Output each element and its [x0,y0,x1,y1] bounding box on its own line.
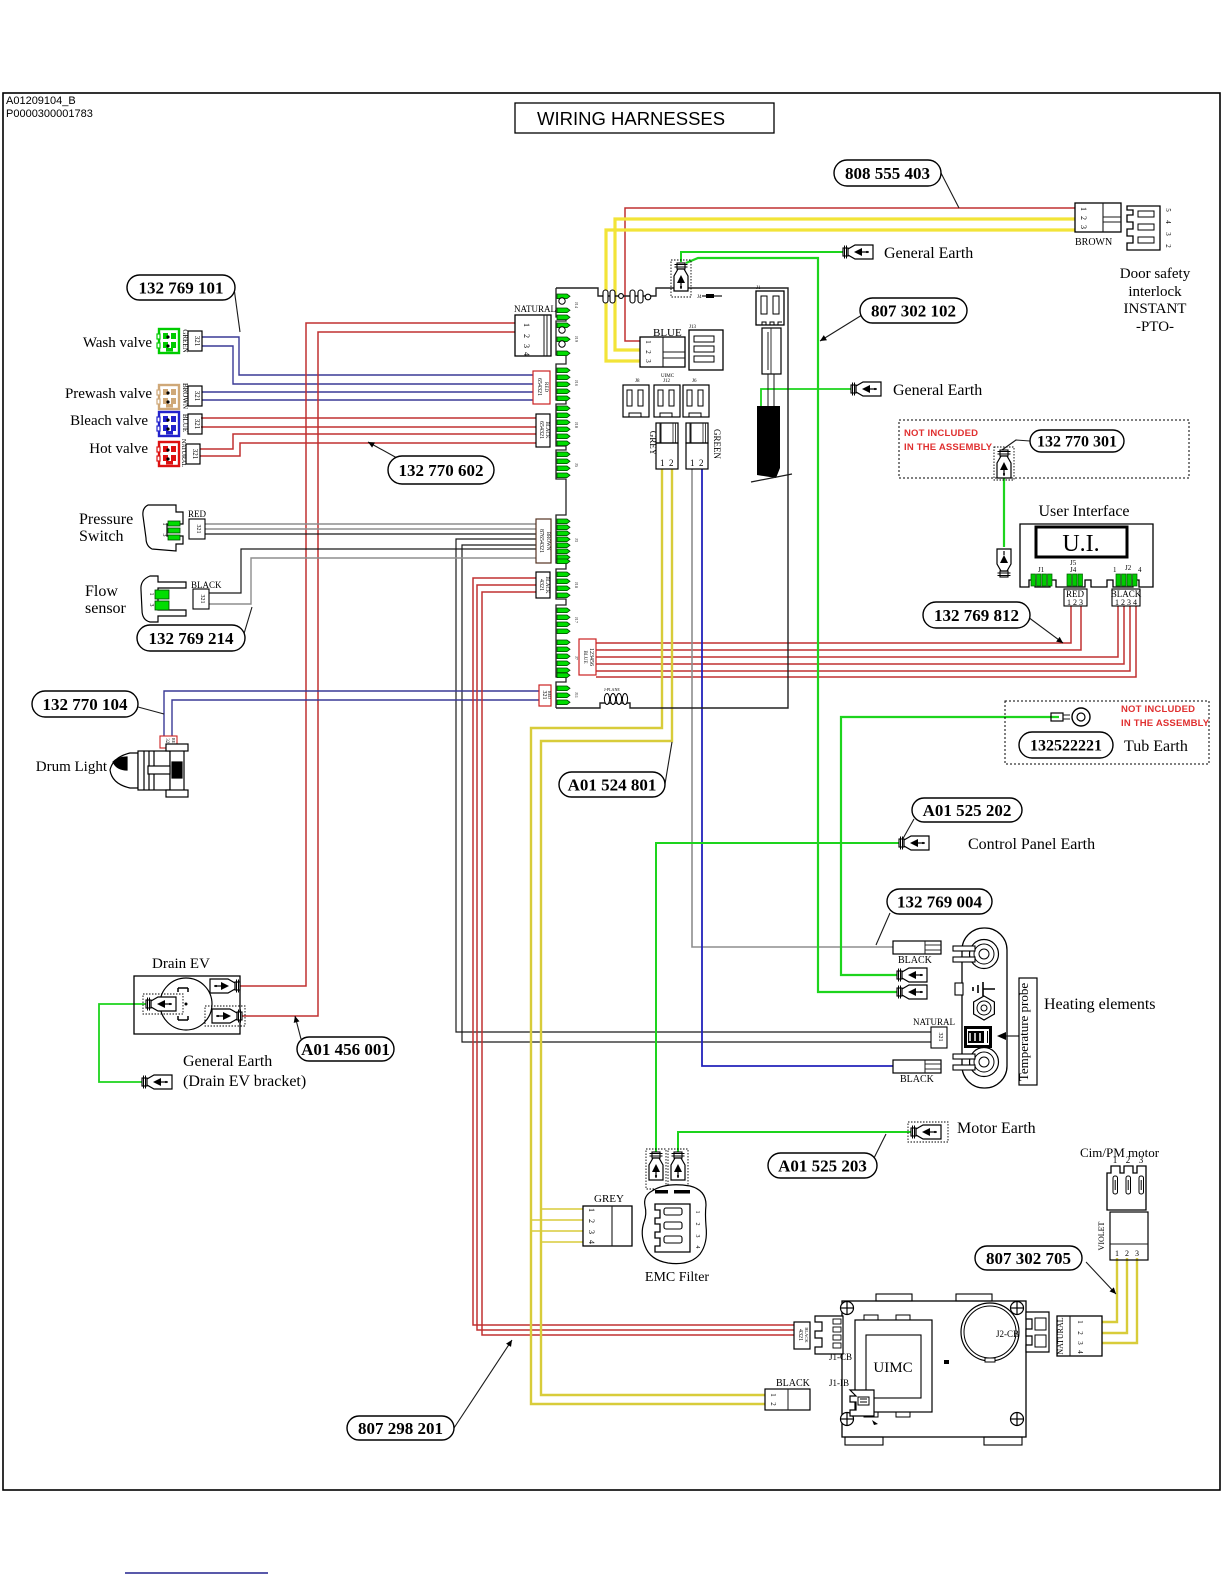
svg-text:Control Panel Earth: Control Panel Earth [968,836,1095,853]
svg-text:321: 321 [541,691,547,700]
svg-text:J10: J10 [574,422,579,429]
svg-text:BLACK: BLACK [900,1074,935,1085]
svg-text:J4: J4 [1070,566,1077,574]
svg-text:1 2 3: 1 2 3 [1067,598,1083,607]
svg-text:BLACK: BLACK [776,1378,811,1389]
svg-text:3: 3 [1164,232,1172,236]
svg-text:A01 525 202: A01 525 202 [923,801,1012,820]
svg-text:4: 4 [1164,220,1172,224]
svg-text:2: 2 [522,334,531,338]
svg-text:U.I.: U.I. [1062,531,1099,557]
svg-text:132 769 812: 132 769 812 [934,606,1019,625]
svg-text:RED: RED [188,509,207,519]
svg-text:UIMC: UIMC [873,1360,912,1376]
svg-text:GREEN: GREEN [712,429,722,459]
svg-text:3: 3 [644,359,652,363]
svg-text:321: 321 [193,391,201,402]
svg-text:J6: J6 [692,379,697,384]
svg-text:807 302 102: 807 302 102 [871,301,956,320]
svg-text:EMC Filter: EMC Filter [645,1270,710,1285]
svg-text:123456: 123456 [588,648,594,666]
svg-text:sensor: sensor [85,600,127,617]
svg-text:J12: J12 [663,379,670,384]
svg-text:J1-IB: J1-IB [829,1378,849,1388]
svg-text:J2-CB: J2-CB [996,1329,1019,1339]
svg-text:321: 321 [193,419,201,430]
svg-text:2: 2 [1126,1155,1131,1165]
svg-text:132 770 104: 132 770 104 [43,695,129,714]
svg-text:Temperature probe: Temperature probe [1016,983,1031,1082]
svg-text:RED: RED [547,691,552,699]
svg-text:Tub Earth: Tub Earth [1124,738,1188,755]
svg-text:BLUE: BLUE [582,650,587,663]
svg-text:J14: J14 [574,302,579,309]
svg-text:Wash valve: Wash valve [83,335,153,351]
svg-text:Door safety: Door safety [1120,266,1191,282]
svg-text:2: 2 [769,1402,777,1406]
svg-text:1: 1 [1113,1155,1118,1165]
svg-text:807 302 705: 807 302 705 [986,1249,1071,1268]
svg-text:132 769 101: 132 769 101 [139,278,224,297]
svg-text:3: 3 [587,1230,596,1234]
svg-text:J1: J1 [1038,566,1045,574]
svg-text:(Drain EV bracket): (Drain EV bracket) [183,1073,306,1090]
svg-text:1: 1 [161,523,167,526]
svg-text:RED: RED [543,382,548,392]
svg-text:Hot valve: Hot valve [89,441,148,457]
svg-text:2: 2 [699,458,704,468]
svg-text:1: 1 [148,593,154,596]
svg-text:interlock: interlock [1128,284,1182,300]
svg-text:General Earth: General Earth [893,382,982,399]
svg-text:4: 4 [1076,1350,1084,1354]
svg-text:J1-CB: J1-CB [829,1352,852,1362]
svg-text:J2: J2 [1125,564,1132,572]
svg-text:-PTO-: -PTO- [1136,319,1174,335]
svg-text:BROWN: BROWN [1075,237,1112,248]
svg-text:2: 2 [587,1219,596,1223]
svg-text:808 555 403: 808 555 403 [845,164,930,183]
svg-text:5: 5 [1164,208,1172,212]
svg-text:J19: J19 [574,336,579,343]
svg-text:A01209104_B: A01209104_B [6,95,76,107]
svg-text:1: 1 [694,1211,700,1214]
svg-text:Cim/PM motor: Cim/PM motor [1080,1145,1160,1160]
svg-text:J1: J1 [756,286,761,291]
svg-text:NATURAL: NATURAL [1056,1317,1065,1354]
svg-text:4321: 4321 [538,579,544,591]
svg-text:1: 1 [522,323,531,327]
svg-text:3: 3 [694,1235,700,1238]
svg-text:A01 525 203: A01 525 203 [778,1156,867,1175]
svg-text:1: 1 [769,1393,777,1397]
svg-text:2: 2 [1125,1249,1129,1258]
svg-text:1: 1 [1113,566,1117,574]
svg-text:4: 4 [1138,566,1142,574]
svg-text:1: 1 [644,340,652,344]
svg-text:654321: 654321 [536,378,542,396]
svg-text:NOT INCLUDED: NOT INCLUDED [904,428,978,439]
svg-text:Prewash valve: Prewash valve [65,386,152,402]
svg-text:INSTANT: INSTANT [1124,301,1187,317]
svg-text:P0000300001783: P0000300001783 [6,108,93,120]
svg-text:4: 4 [587,1240,596,1244]
svg-text:1: 1 [1115,1249,1119,1258]
svg-text:3: 3 [1076,1341,1084,1345]
svg-text:87654321: 87654321 [538,529,544,553]
svg-text:Motor Earth: Motor Earth [957,1120,1036,1137]
svg-text:132522221: 132522221 [1030,738,1102,755]
svg-text:2: 2 [1076,1331,1084,1335]
svg-text:3: 3 [1135,1249,1139,1258]
svg-text:2: 2 [1164,244,1172,248]
svg-text:3: 3 [522,344,531,348]
svg-text:NOT INCLUDED: NOT INCLUDED [1121,704,1195,715]
svg-text:321: 321 [937,1033,943,1042]
svg-text:J16: J16 [574,380,579,387]
svg-text:132 769 214: 132 769 214 [149,629,235,648]
svg-text:3: 3 [1079,225,1088,229]
svg-text:2: 2 [1079,216,1088,220]
svg-text:321: 321 [191,449,199,460]
svg-text:321: 321 [193,336,201,347]
svg-text:Switch: Switch [79,528,123,545]
svg-text:1: 1 [587,1208,596,1212]
svg-text:J4: J4 [697,295,702,300]
svg-text:General Earth: General Earth [183,1053,272,1070]
svg-text:BLACK: BLACK [544,422,549,439]
svg-text:BLACK: BLACK [898,955,933,966]
svg-text:4: 4 [694,1246,700,1249]
svg-text:654321: 654321 [538,421,544,439]
svg-text:3: 3 [161,534,167,537]
svg-text:1: 1 [660,458,665,468]
svg-text:132 769 004: 132 769 004 [897,892,983,911]
svg-text:321: 321 [199,595,205,604]
svg-text:GREY: GREY [594,1193,624,1205]
svg-text:J13: J13 [689,325,696,330]
svg-text:J17: J17 [574,617,579,624]
svg-text:Heating elements: Heating elements [1044,996,1156,1013]
svg-text:J8: J8 [635,379,640,384]
svg-text:1: 1 [1076,1320,1084,1324]
svg-text:1: 1 [690,458,695,468]
svg-text:4321: 4321 [797,1329,803,1341]
svg-text:Flow: Flow [85,583,118,600]
svg-text:3: 3 [1139,1155,1144,1165]
svg-text:J-PLANE: J-PLANE [604,687,620,692]
svg-text:User Interface: User Interface [1038,503,1129,520]
svg-text:321: 321 [195,525,201,534]
svg-text:A01 524 801: A01 524 801 [568,775,657,794]
svg-text:Drum Light: Drum Light [36,759,108,775]
svg-text:132 770 602: 132 770 602 [399,461,484,480]
svg-text:2: 2 [694,1223,700,1226]
svg-text:132 770 301: 132 770 301 [1037,434,1117,451]
svg-text:NATURAL: NATURAL [913,1017,955,1027]
svg-text:BROWN: BROWN [545,532,550,551]
svg-text:BLACK: BLACK [544,577,549,594]
svg-text:Pressure: Pressure [79,511,133,528]
svg-text:807 298 201: 807 298 201 [358,1419,443,1438]
svg-text:J11: J11 [574,692,579,698]
svg-text:WIRING HARNESSES: WIRING HARNESSES [537,108,725,129]
svg-text:IN THE ASSEMBLY: IN THE ASSEMBLY [904,442,993,453]
svg-text:Drain EV: Drain EV [152,956,210,972]
svg-text:NATURAL: NATURAL [180,439,186,467]
svg-text:BLACK: BLACK [804,1327,809,1343]
svg-text:A01 456 001: A01 456 001 [301,1040,390,1059]
svg-text:2: 2 [644,350,652,354]
svg-text:2: 2 [669,458,674,468]
svg-text:1: 1 [1079,207,1088,211]
svg-text:4: 4 [522,352,531,356]
svg-text:3: 3 [148,604,154,607]
svg-text:J18: J18 [574,582,579,589]
svg-text:NATURAL: NATURAL [514,304,556,314]
svg-text:1 2 3 4: 1 2 3 4 [1115,598,1137,607]
svg-text:VIOLET: VIOLET [1097,1221,1106,1250]
svg-text:IN THE ASSEMBLY: IN THE ASSEMBLY [1121,718,1210,729]
svg-text:General Earth: General Earth [884,245,973,262]
svg-text:Bleach valve: Bleach valve [70,413,148,429]
